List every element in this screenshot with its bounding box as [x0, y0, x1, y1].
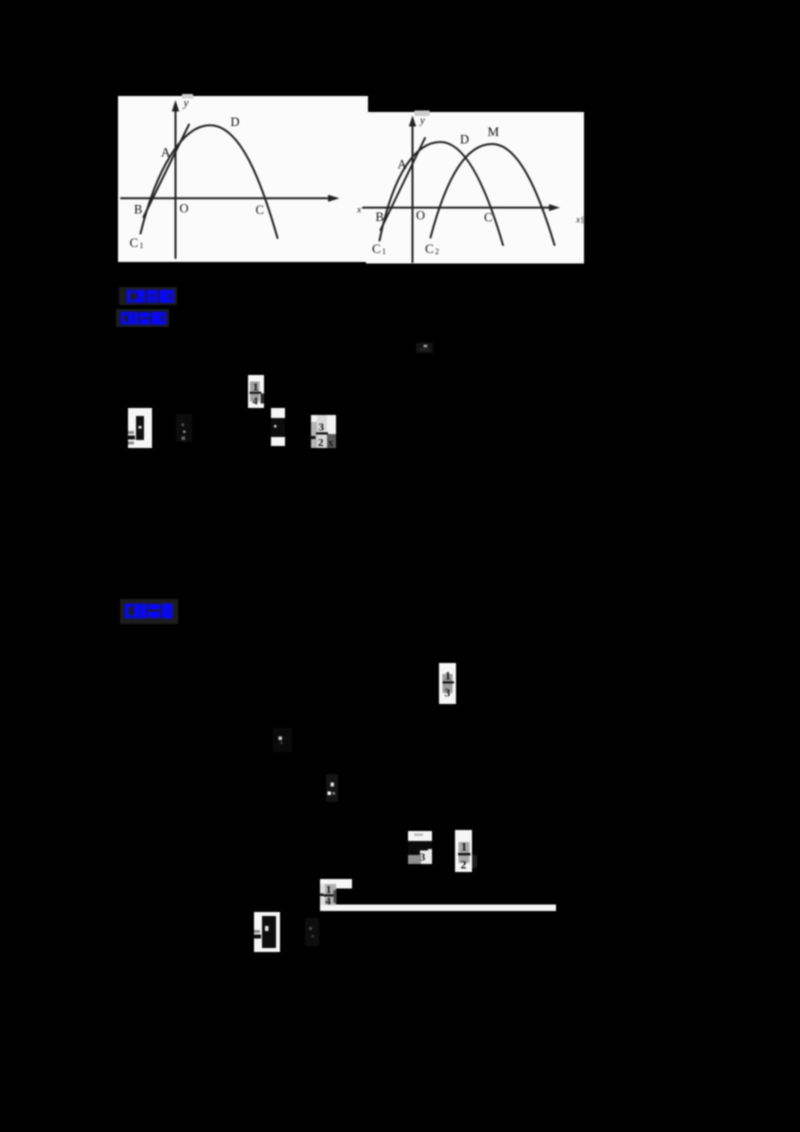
- fragment E: fraction 3/2 x: [309, 415, 337, 449]
- svg-text:B: B: [376, 210, 384, 224]
- svg-text:y: y: [183, 98, 190, 110]
- blue heading 2 text blob: [121, 312, 167, 325]
- fragment K: fraction 1/2 image: [455, 830, 477, 872]
- fig2 parabola C2 (M): [431, 144, 555, 245]
- svg-text:x: x: [575, 216, 581, 226]
- svg-text:x: x: [328, 437, 334, 449]
- svg-text:1: 1: [461, 840, 467, 854]
- svg-text:3: 3: [420, 853, 425, 864]
- fragment N: faint blob: [305, 918, 319, 946]
- fragment H: faint speck blob: [273, 728, 292, 752]
- fig2 y-axis: [412, 123, 414, 262]
- svg-text:3: 3: [445, 688, 451, 700]
- svg-text:1: 1: [140, 241, 144, 250]
- svg-text:A: A: [161, 145, 171, 160]
- figure 1 white box: [118, 96, 368, 262]
- fig1 x-axis arrowhead: [328, 195, 340, 202]
- fig2 gray smudge at y label: [415, 111, 430, 117]
- blue heading 1 text blob: [127, 290, 175, 303]
- svg-text:M: M: [488, 124, 500, 139]
- fragment A: fraction 1/4 image: [248, 375, 264, 408]
- fragment F: faint y= mark: [416, 343, 433, 354]
- fragment L: -1/4 with long white band: [319, 879, 556, 911]
- blue heading 1 background patch: [119, 287, 177, 305]
- svg-text:3: 3: [319, 422, 325, 434]
- svg-text:C: C: [372, 241, 381, 256]
- svg-text:2: 2: [318, 437, 324, 449]
- fig2 y-axis arrowhead: [409, 116, 416, 127]
- svg-text:4: 4: [253, 397, 259, 408]
- svg-text:D: D: [460, 133, 469, 147]
- svg-text:C: C: [130, 235, 139, 250]
- fragment D: white rect with black band: [271, 408, 285, 446]
- fig2 tangent line AB: [381, 138, 426, 230]
- svg-text:B: B: [134, 203, 142, 217]
- svg-text:O: O: [180, 202, 189, 216]
- svg-text:2: 2: [435, 247, 439, 256]
- fragment J: partial fraction image: [408, 831, 432, 864]
- fig1 tangent line AB: [144, 125, 190, 218]
- blue heading 3 text blob: [125, 604, 173, 619]
- fig1 gray smudge above y label: [182, 94, 193, 99]
- fragment B: = with black box: [127, 408, 152, 448]
- svg-text:y: y: [419, 115, 425, 127]
- svg-text:1: 1: [445, 671, 451, 683]
- fig1 parabola C1: [141, 125, 278, 238]
- fig1 y-axis arrowhead: [172, 100, 179, 112]
- svg-text:C: C: [484, 211, 492, 225]
- fig2 x-axis: [363, 207, 552, 209]
- svg-text:D: D: [231, 115, 240, 129]
- svg-text:C: C: [256, 203, 264, 217]
- blue heading 2 background patch: [116, 309, 169, 327]
- fig2 parabola C1 (D): [380, 142, 504, 245]
- svg-text:x: x: [356, 206, 362, 216]
- fragment I: dark blob with specks: [326, 774, 338, 802]
- svg-text:2: 2: [461, 858, 467, 872]
- blue heading 3 background patch: [120, 599, 178, 624]
- fragment M: = with black box 2: [253, 912, 280, 952]
- fig2 x-axis arrowhead: [549, 204, 560, 211]
- figure 2 white box: [366, 112, 584, 264]
- fragment C: dark blob with specks: [176, 414, 192, 442]
- fragment G: fraction 1/3 image: [439, 663, 456, 704]
- fig1 y-axis: [175, 108, 177, 258]
- fig1 x-axis: [121, 197, 331, 199]
- svg-text:O: O: [416, 209, 425, 223]
- svg-text:A: A: [398, 158, 407, 172]
- svg-text:4: 4: [326, 897, 332, 908]
- svg-text:1: 1: [382, 247, 386, 256]
- svg-text:C: C: [425, 241, 434, 256]
